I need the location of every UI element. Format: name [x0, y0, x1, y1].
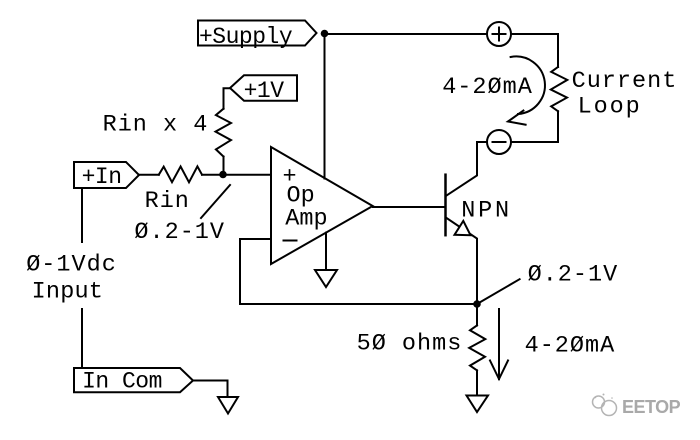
- svg-text:Amp: Amp: [285, 206, 327, 233]
- svg-text:Input: Input: [32, 279, 104, 306]
- svg-text:+In: +In: [82, 164, 122, 190]
- svg-text:5Ø ohms: 5Ø ohms: [357, 331, 463, 358]
- svg-text:EETOP: EETOP: [622, 397, 681, 417]
- svg-text:In Com: In Com: [82, 369, 162, 395]
- svg-text:+1V: +1V: [244, 78, 285, 104]
- svg-text:+: +: [283, 164, 298, 191]
- svg-text:Rin x 4: Rin x 4: [103, 112, 209, 139]
- svg-text:4-2ØmA: 4-2ØmA: [525, 333, 616, 360]
- svg-text:Rin: Rin: [145, 188, 190, 215]
- svg-text:Ø.2-1V: Ø.2-1V: [528, 262, 619, 289]
- svg-text:Ø-1Vdc: Ø-1Vdc: [26, 252, 117, 279]
- svg-text:Loop: Loop: [578, 94, 642, 121]
- svg-text:Ø.2-1V: Ø.2-1V: [134, 219, 225, 246]
- svg-text:Current: Current: [572, 68, 678, 95]
- svg-text:4-2ØmA: 4-2ØmA: [442, 74, 533, 101]
- svg-text:NPN: NPN: [461, 198, 512, 225]
- svg-text:+Supply: +Supply: [199, 24, 293, 50]
